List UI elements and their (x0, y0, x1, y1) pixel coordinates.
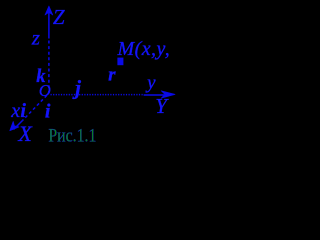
Y axis solid segment (144, 94, 167, 96)
svg-text:i: i (45, 101, 51, 123)
svg-text:X: X (17, 121, 33, 146)
X axis solid segment (14, 121, 23, 130)
X axis arrowhead (10, 122, 19, 131)
svg-text:z: z (31, 26, 40, 50)
svg-text:y: y (145, 72, 156, 93)
Z axis dashed segment (48, 41, 50, 93)
svg-text:Z: Z (53, 5, 65, 29)
svg-text:i: i (20, 100, 26, 122)
X axis dashed segment (23, 95, 47, 120)
Y axis arrowhead (161, 91, 175, 98)
svg-text:M(x,y,: M(x,y, (117, 38, 171, 60)
Z axis solid segment (48, 10, 50, 39)
Y axis dotted segment (51, 94, 144, 96)
svg-text:r: r (108, 64, 116, 85)
point M marker (117, 58, 123, 66)
svg-text:x: x (10, 100, 20, 122)
svg-text:k: k (36, 67, 46, 87)
svg-text:Рис.1.1: Рис.1.1 (48, 127, 96, 147)
Z axis arrowhead (45, 6, 53, 15)
